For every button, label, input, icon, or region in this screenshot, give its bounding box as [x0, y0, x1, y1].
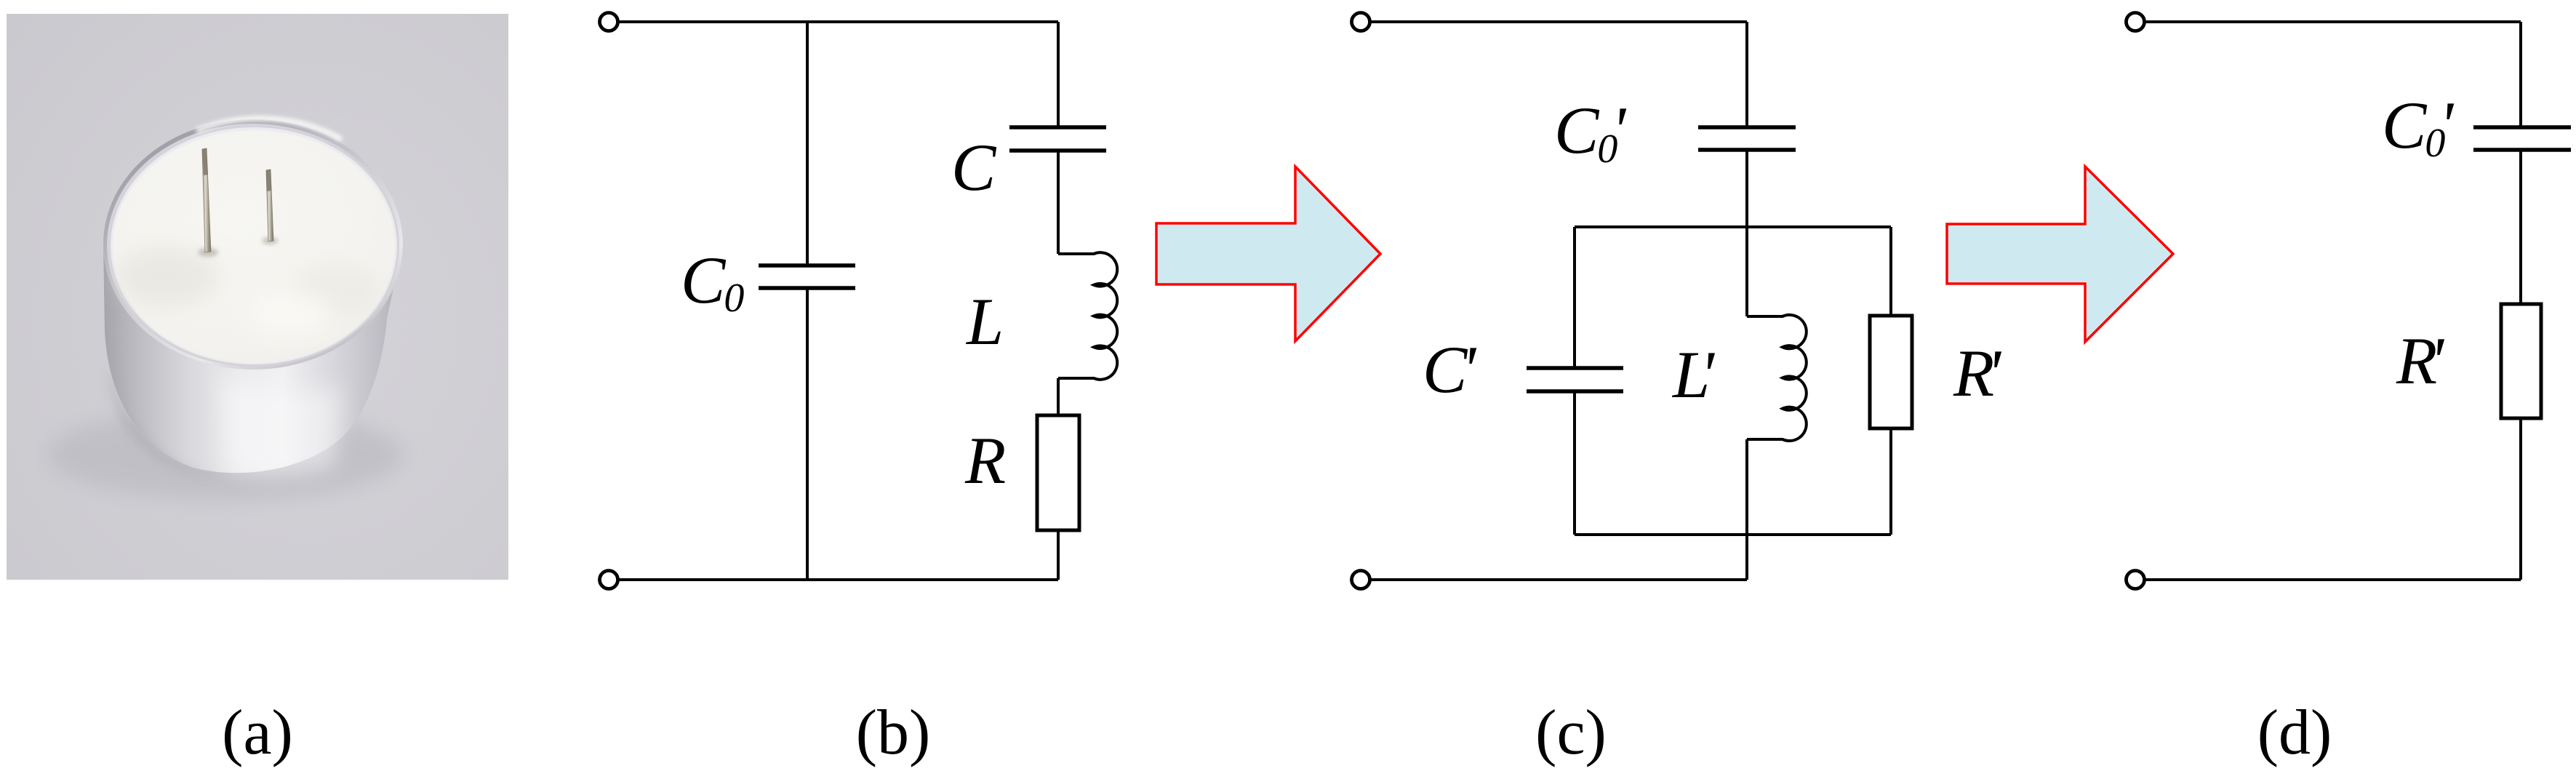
wire left branch upper (c) [1573, 227, 1576, 367]
svg-text:C0': C0' [1554, 93, 1626, 172]
terminal top-left (d) [2127, 13, 2145, 31]
svg-text:R': R' [2396, 324, 2444, 398]
svg-text:R: R [964, 423, 1006, 498]
wire center vertical cap to coil (c) [1745, 151, 1748, 316]
body bottom-left shading [109, 364, 218, 476]
svg-text:R': R' [1953, 336, 2001, 410]
resistor R' body (d) [2501, 304, 2541, 418]
resistor R body [1037, 415, 1079, 530]
svg-text:(b): (b) [856, 698, 931, 768]
svg-text:C: C [951, 130, 997, 204]
svg-text:L: L [965, 284, 1004, 359]
wire inductor to resistor (b) [1057, 378, 1060, 415]
terminal top-left (c) [1352, 13, 1370, 31]
transducer rim [103, 119, 403, 369]
svg-text:(c): (c) [1535, 698, 1607, 768]
inductor L' [1747, 315, 1807, 441]
svg-text:C0: C0 [681, 243, 744, 321]
pin 2 base shadow [262, 237, 278, 244]
face subtle smudge right [291, 265, 378, 316]
arrow (b) to (c) [1156, 167, 1380, 341]
wire bottom (d) [2144, 578, 2521, 581]
wire right branch upper (b) [1057, 22, 1060, 126]
terminal bottom-left (c) [1352, 571, 1370, 589]
wire middle branch upper (b) [806, 22, 809, 264]
capacitor C0' plates (d) [2473, 127, 2571, 150]
circuit (b): Butterworth-Van Dyke equivalent circuit [600, 13, 1118, 589]
terminal bottom-left (d) [2127, 571, 2145, 589]
wire top (c) [1369, 20, 1747, 23]
wire top (d) [2144, 20, 2521, 23]
wire right vertical upper (d) [2519, 22, 2522, 126]
pin 1 [202, 148, 211, 252]
wire top (b) [617, 20, 1058, 23]
wire middle branch lower (b) [806, 289, 809, 580]
rim glint [196, 119, 342, 140]
pin 2 [266, 169, 273, 241]
resistor R' body (c) [1870, 316, 1912, 428]
wire resistor to bottom (d) [2519, 418, 2522, 580]
transducer top face [113, 130, 395, 363]
rim inner bright ring [107, 124, 399, 367]
wire right branch lower (c) [1889, 428, 1892, 535]
svg-text:(d): (d) [2257, 698, 2332, 768]
svg-text:C': C' [1423, 332, 1476, 407]
wire bottom (c) [1369, 578, 1747, 581]
capacitor C' plates [1527, 368, 1623, 391]
terminal top-left (b) [600, 13, 618, 31]
transducer body (cylinder side) [103, 244, 403, 473]
terminal bottom-left (b) [600, 571, 618, 589]
wire right branch upper (c) [1889, 227, 1892, 316]
photo (a): ultrasonic transducer photograph [7, 14, 508, 580]
svg-text:C0': C0' [2382, 88, 2454, 166]
inductor L [1058, 252, 1117, 380]
wire resistor to bottom (b) [1057, 530, 1060, 580]
arrow (c) to (d) [1947, 167, 2173, 342]
pin 1 base shadow [198, 248, 218, 257]
wire left branch lower (c) [1573, 393, 1576, 535]
svg-text:L': L' [1671, 337, 1715, 412]
face bright spot [251, 291, 331, 335]
wire center vertical coil to bottom (c) [1745, 439, 1748, 580]
capacitor C0 plates [759, 265, 855, 288]
pin 1 dark tip [202, 148, 208, 175]
wire center vertical upper (c) [1745, 22, 1748, 126]
transducer cast shadow [47, 410, 404, 500]
body specular highlight [218, 378, 342, 476]
circuit (d): simplified equivalent circuit at resonance [2127, 13, 2572, 589]
capacitor C0' plates (c) [1698, 127, 1796, 150]
face subtle smudge left [116, 247, 218, 305]
wire bottom (b) [617, 578, 1058, 581]
wire parallel-box top rail (c) [1575, 225, 1891, 228]
wire parallel-box bottom rail (c) [1575, 533, 1891, 536]
circuit (c): transformed parallel equivalent circuit [1352, 13, 1913, 589]
wire cap C to inductor L (b) [1057, 152, 1060, 254]
wire cap to resistor (d) [2519, 151, 2522, 304]
svg-text:(a): (a) [222, 698, 293, 768]
photo background [7, 14, 508, 580]
capacitor C plates [1009, 127, 1106, 151]
pin 2 dark tip [266, 169, 271, 191]
